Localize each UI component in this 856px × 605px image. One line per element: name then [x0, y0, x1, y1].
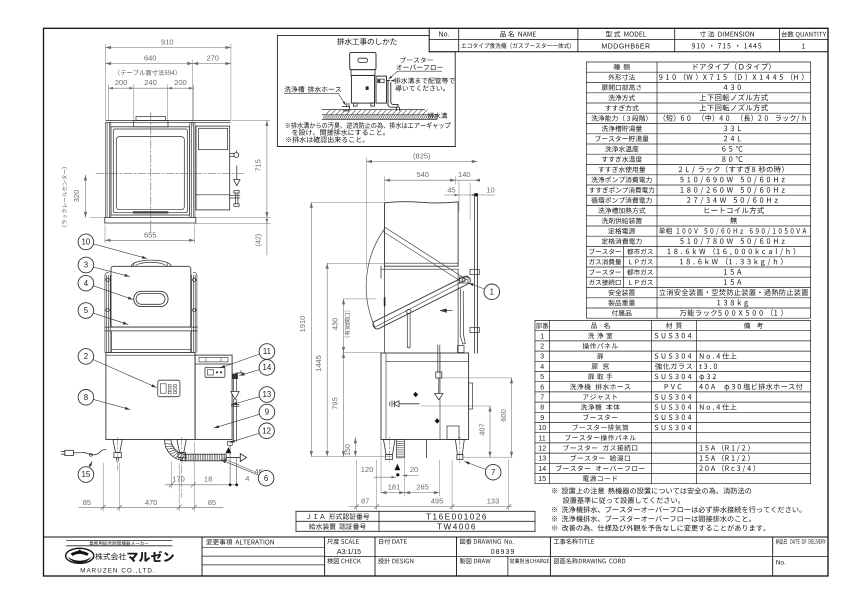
svg-text:9: 9 — [540, 415, 544, 422]
header table — [428, 28, 430, 51]
plan view gas cock fitting — [230, 153, 235, 155]
balloon 6 — [221, 460, 259, 476]
svg-text:1910: 1910 — [298, 316, 307, 333]
front view booster vent slot — [199, 357, 228, 362]
svg-text:407: 407 — [478, 423, 487, 436]
front view booster — [195, 355, 232, 439]
svg-text:8: 8 — [84, 393, 88, 402]
svg-text:No.: No. — [776, 560, 786, 567]
plan view centerline horizontal — [96, 173, 244, 175]
front view corrugated drain hose — [185, 454, 226, 461]
plan view booster outline — [196, 126, 230, 210]
balloon 1 — [469, 283, 485, 289]
dim 910 — [106, 47, 231, 49]
svg-text:2: 2 — [540, 344, 544, 351]
mini drain pipe left — [348, 103, 350, 107]
svg-text:87: 87 — [361, 496, 369, 505]
dim 150 — [354, 438, 356, 457]
side view burner box — [447, 426, 459, 440]
svg-text:150: 150 — [345, 444, 352, 456]
side view diamond marks — [414, 392, 418, 397]
side view ribbed drain hose — [397, 440, 405, 458]
balloon 7 — [465, 462, 486, 470]
svg-text:4: 4 — [84, 279, 89, 288]
svg-text:9: 9 — [265, 408, 269, 417]
svg-text:495: 495 — [431, 496, 444, 505]
dim (42) — [266, 218, 268, 255]
floor hatching — [322, 109, 424, 111]
side view gas connection arrow — [436, 372, 442, 378]
front view door handle — [134, 291, 168, 306]
svg-text:240: 240 — [144, 78, 157, 87]
balloon 2 — [93, 360, 157, 388]
dim 640 — [106, 63, 193, 65]
parts table — [535, 320, 811, 322]
dim 1445 — [326, 263, 328, 456]
front view hood — [111, 266, 191, 327]
svg-text:640: 640 — [144, 54, 157, 63]
spec table text — [614, 64, 630, 70]
svg-text:265: 265 — [416, 483, 429, 492]
svg-text:10: 10 — [82, 238, 91, 247]
svg-text:15: 15 — [82, 470, 91, 479]
svg-text:1: 1 — [490, 288, 494, 297]
svg-text:200: 200 — [115, 78, 128, 87]
svg-text:18: 18 — [204, 474, 212, 483]
plan view wash chamber mid — [113, 129, 187, 213]
side view overflow J pipe — [460, 289, 465, 344]
svg-text:20: 20 — [410, 465, 418, 474]
dim 265 — [405, 492, 440, 494]
svg-text:3: 3 — [540, 354, 544, 361]
side view internal wall — [439, 353, 441, 440]
dim 200 240 200 — [108, 87, 193, 89]
parts table header — [536, 323, 548, 329]
side view drain marker — [395, 465, 400, 471]
svg-text:655: 655 — [144, 231, 157, 240]
front view body — [106, 353, 195, 440]
svg-text:7: 7 — [491, 468, 495, 477]
header row values — [461, 43, 571, 49]
plan view booster bottom line — [196, 194, 230, 196]
svg-text:T16E001026: T16E001026 — [426, 513, 488, 522]
front view marker triangle — [226, 448, 231, 453]
svg-text:12: 12 — [538, 446, 546, 453]
svg-text:11: 11 — [539, 435, 546, 442]
dim (825) — [366, 161, 477, 163]
svg-text:320: 320 — [72, 190, 81, 203]
drain label pipe to ditch — [394, 77, 455, 83]
drain label washer hose — [284, 86, 341, 92]
svg-text:470: 470 — [145, 498, 158, 507]
maker cell — [201, 537, 203, 576]
drain label ditch — [428, 112, 447, 118]
svg-text:910: 910 — [161, 38, 174, 47]
svg-text:715: 715 — [253, 159, 262, 172]
plan view water inlet arrow — [236, 166, 238, 180]
side view left leg — [384, 440, 396, 455]
dim 1910 — [310, 202, 312, 456]
svg-text:270: 270 — [206, 54, 219, 63]
maruzen logotype — [95, 553, 126, 560]
side view hood lower edge — [381, 268, 458, 270]
dim 85 470 85 — [79, 506, 223, 508]
side view hood rim line — [385, 262, 459, 264]
svg-text:6: 6 — [540, 384, 544, 391]
dim 20 — [403, 475, 419, 477]
dim 120 — [374, 476, 396, 478]
side view gas pipe from booster — [437, 345, 439, 372]
drain label booster overflow — [400, 57, 432, 63]
front view vent cap — [131, 260, 171, 266]
dim 320 rack rail center — [85, 175, 87, 217]
balloon 12 — [230, 433, 259, 442]
svg-text:5: 5 — [84, 306, 89, 315]
svg-text:795: 795 — [331, 397, 340, 410]
balloon 11 — [220, 354, 260, 368]
plan view right rail — [189, 122, 191, 217]
table size note — [118, 70, 176, 76]
mini booster overflow pipe — [387, 81, 389, 105]
svg-text:181: 181 — [388, 483, 401, 492]
balloon 10 — [93, 244, 147, 259]
side view detail arrow — [441, 310, 453, 312]
balloon 15 — [89, 462, 92, 468]
plan view overflow fitting — [230, 194, 240, 196]
svg-text:11: 11 — [263, 347, 271, 356]
side view open door plank — [373, 276, 470, 329]
front view left leg — [113, 440, 122, 453]
side view exhaust duct — [474, 194, 476, 354]
side view right leg — [455, 440, 464, 455]
front view left guide rail — [104, 275, 106, 352]
front view lower door section — [111, 331, 113, 353]
mini booster — [376, 76, 387, 103]
svg-text:2: 2 — [84, 352, 88, 361]
svg-text:6: 6 — [264, 474, 268, 483]
svg-text:14: 14 — [538, 466, 546, 473]
svg-text:10: 10 — [538, 425, 546, 432]
svg-text:8: 8 — [540, 405, 544, 412]
balloon 4 — [93, 286, 133, 300]
svg-text:140: 140 — [458, 170, 471, 179]
front view power cord — [74, 450, 106, 455]
front view control panel — [158, 380, 180, 397]
drain diagram box — [277, 34, 429, 36]
front view booster panel — [205, 367, 225, 377]
dim 655 shared — [105, 239, 195, 241]
svg-text:(825): (825) — [413, 152, 431, 161]
dim 600 — [511, 378, 513, 457]
front view pipe fitting lower — [228, 441, 233, 445]
balloon 9 — [214, 414, 259, 428]
JIA approval table — [296, 510, 535, 512]
side view rear panel verticals — [384, 266, 386, 353]
svg-text:MARUZEN CO.,LTD.: MARUZEN CO.,LTD. — [80, 568, 156, 575]
dim 540 — [385, 179, 456, 181]
plan view tank opening — [116, 137, 184, 210]
dim 181 — [381, 492, 405, 494]
dim 795 — [343, 352, 345, 456]
title block — [44, 536, 829, 538]
dim 170 18 4 — [165, 484, 237, 486]
svg-text:4: 4 — [245, 474, 249, 483]
balloon 5 — [93, 313, 128, 325]
svg-text:430: 430 — [331, 318, 340, 331]
svg-text:170: 170 — [172, 474, 185, 483]
svg-text:No.: No. — [439, 32, 450, 39]
plan view door sill bar — [133, 211, 168, 213]
side view overflow funnel on body top — [458, 346, 465, 353]
svg-text:14: 14 — [263, 363, 272, 372]
plan view booster inner box — [199, 128, 228, 149]
svg-text:12: 12 — [262, 427, 271, 436]
spec table — [587, 61, 811, 63]
svg-text:15: 15 — [538, 476, 546, 483]
alteration cell — [324, 537, 326, 576]
balloon 14 — [240, 370, 260, 376]
side view duct brackets — [470, 269, 479, 274]
plan view vent cap — [136, 117, 166, 121]
side view hood raised — [385, 202, 459, 267]
svg-text:133: 133 — [487, 496, 500, 505]
dim 430 effective opening — [343, 299, 345, 353]
svg-text:(42): (42) — [255, 234, 262, 246]
ground line extension — [311, 456, 393, 458]
maruzen logo mark — [66, 548, 94, 563]
svg-text:A3:1/15: A3:1/15 — [337, 549, 361, 556]
drain diagram title — [337, 38, 397, 45]
notes — [552, 487, 751, 494]
side view door edge mark — [384, 298, 386, 306]
svg-text:5: 5 — [540, 374, 544, 381]
svg-text:10: 10 — [486, 185, 494, 194]
front view gas cock — [232, 374, 238, 379]
front view right guide rail — [191, 275, 193, 352]
side view body — [381, 353, 469, 440]
plan view rail bottom bar — [105, 217, 196, 219]
mini dishwasher body — [351, 75, 374, 103]
svg-text:120: 120 — [361, 465, 374, 474]
mini dishwasher neck — [351, 70, 375, 76]
front view drain elbow hatched — [165, 440, 186, 461]
svg-text:13: 13 — [263, 390, 272, 399]
balloon 3 — [93, 267, 129, 277]
mini dishwasher legs — [353, 103, 357, 106]
mini dishwasher hood — [350, 53, 376, 70]
dim 87 495 133 — [349, 506, 512, 508]
svg-text:1445: 1445 — [314, 355, 323, 372]
svg-text:13: 13 — [538, 456, 546, 463]
side view gas pipe stub — [426, 440, 428, 458]
dim 45 and 10 — [444, 194, 494, 196]
svg-text:TW4006: TW4006 — [437, 523, 477, 532]
svg-text:200: 200 — [174, 78, 187, 87]
svg-text:7: 7 — [540, 395, 544, 402]
side view hinge bracket — [460, 277, 469, 283]
front view table band — [105, 326, 197, 328]
side view door swing fan — [366, 228, 466, 328]
dim 715 — [266, 120, 268, 217]
balloon 13 — [232, 397, 260, 405]
svg-text:1: 1 — [802, 43, 806, 50]
dim 407 — [489, 406, 491, 457]
side view door support rod — [407, 309, 411, 313]
title block right columns — [325, 556, 828, 558]
drain notes — [286, 122, 451, 129]
balloon 8 — [93, 399, 130, 409]
plan view left rail — [105, 122, 107, 217]
plan view table top edge — [106, 119, 230, 121]
front view pipe and air gap funnel — [232, 379, 234, 392]
side view water inlet arrow — [399, 403, 419, 405]
svg-text:85: 85 — [83, 498, 91, 507]
svg-text:85: 85 — [208, 498, 216, 507]
svg-text:1: 1 — [540, 333, 544, 340]
side view overflow outlet tab — [469, 383, 473, 409]
front view drain arrow — [226, 457, 240, 459]
svg-text:540: 540 — [416, 170, 429, 179]
front view right leg — [177, 440, 186, 453]
svg-text:3: 3 — [84, 261, 88, 270]
dim 270 — [193, 63, 231, 65]
svg-text:MDDGHB6ER: MDDGHB6ER — [601, 43, 650, 50]
plan view wash chamber outer — [111, 127, 190, 215]
svg-text:4: 4 — [540, 364, 544, 371]
svg-text:45: 45 — [447, 185, 455, 194]
svg-text:08939: 08939 — [491, 549, 515, 556]
plan view centerline vertical — [150, 113, 152, 233]
svg-text:600: 600 — [499, 409, 508, 422]
